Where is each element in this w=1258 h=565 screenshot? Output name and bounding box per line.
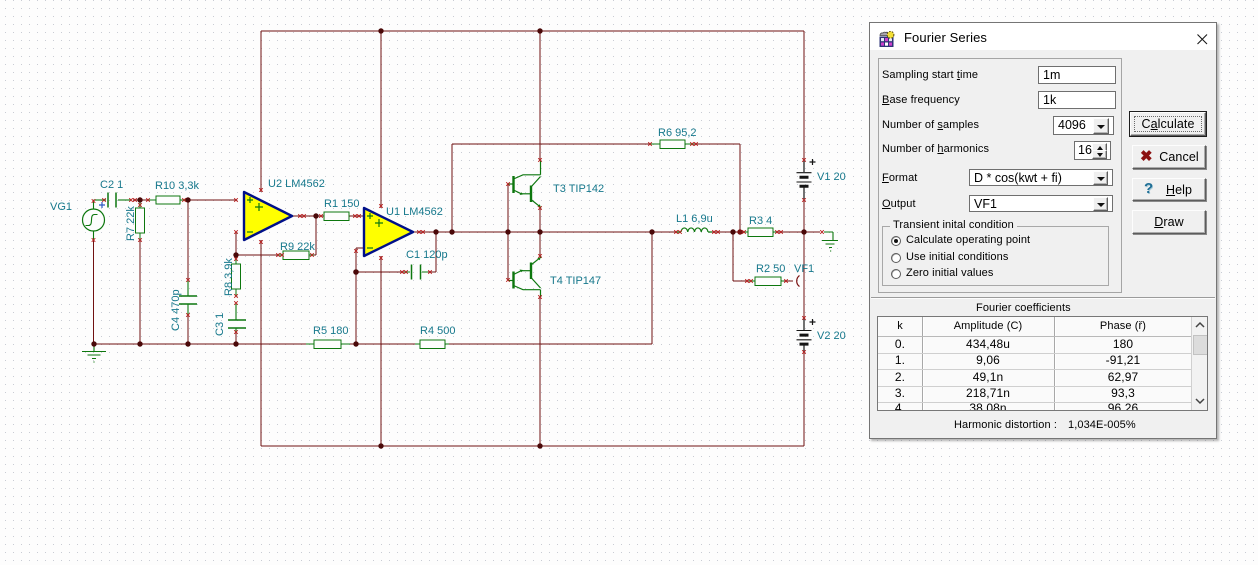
resistor R10 [148, 196, 186, 204]
wire top rail [261, 30, 804, 32]
row 0 [878, 337, 1191, 352]
title text [904, 30, 987, 45]
svg-text:L1 6,9u: L1 6,9u [676, 213, 713, 225]
row 3 [878, 386, 1191, 401]
svg-text:V2 20: V2 20 [817, 330, 846, 342]
wire C2 to R7 node [133, 199, 148, 201]
wire R6 branch riser [452, 144, 651, 232]
svg-text:R10 3,3k: R10 3,3k [155, 180, 200, 192]
transistor T3 [508, 161, 541, 208]
wire C4 bottom [187, 315, 189, 344]
node R6 drop [737, 229, 742, 234]
wire R1 to U1 input [348, 215, 364, 217]
svg-text:T4 TIP147: T4 TIP147 [550, 275, 601, 287]
wire U1 V+ feed [380, 31, 382, 208]
node top rail T3 [537, 28, 542, 33]
svg-text:R6 95,2: R6 95,2 [658, 127, 697, 139]
capacitor C4 [179, 281, 197, 315]
label Base frequency [882, 94, 960, 106]
label Format [882, 172, 917, 184]
edit base frequency [1038, 91, 1116, 109]
wire R2 to VF1 [784, 280, 793, 282]
wire V1 top [803, 31, 805, 161]
node top rail U1 [378, 28, 383, 33]
radio Calculate operating point [891, 236, 901, 246]
node gnd/VG1 [91, 341, 96, 346]
row 2 [878, 370, 1191, 385]
battery V2 [797, 318, 816, 352]
wire T3 collector feed [539, 31, 541, 161]
edit sampling start time [1038, 66, 1116, 84]
label Output [882, 198, 916, 210]
VG1 plus polarity mark [99, 202, 105, 208]
svg-text:U1 LM4562: U1 LM4562 [386, 206, 443, 218]
button Draw [1132, 210, 1206, 234]
wire U2 inverting input drop [235, 232, 237, 264]
wire ground line mid [350, 343, 415, 345]
svg-text:R8 3,9k: R8 3,9k [223, 258, 235, 296]
wire U1 inv to ground line [355, 272, 357, 344]
wire V2 top [803, 232, 805, 318]
title icon [879, 31, 895, 47]
node U2-/R9/R8 [233, 252, 238, 257]
row 4 [878, 401, 1191, 416]
group box Transient inital condition [882, 226, 1109, 286]
button Calculate [1130, 112, 1206, 136]
resistor R5 [306, 340, 350, 349]
wire R10 to U2 input [184, 199, 237, 201]
op-amp U1 [364, 208, 413, 256]
Fourier Series dialog window [869, 22, 1217, 439]
wire L1 to R3 [712, 231, 744, 233]
node R5/U1- [353, 341, 358, 346]
wire C1 left [356, 271, 404, 273]
ground left [82, 344, 106, 362]
wire R3 right [776, 231, 820, 233]
battery V1 [797, 159, 816, 199]
wire R9 left [236, 254, 278, 256]
node V1/V2/gnd [801, 229, 806, 234]
node R6 branch [449, 229, 454, 234]
voltage probe VF1 [797, 276, 800, 287]
wire C4 top [187, 200, 189, 280]
node emitters [537, 229, 542, 234]
svg-text:VF1: VF1 [794, 263, 814, 275]
wire U1 inverting lead [356, 248, 364, 272]
wire ground line right [449, 343, 652, 345]
row separators [878, 336, 1191, 337]
resistor R6 [651, 140, 694, 149]
wire L1 return riser [651, 232, 653, 344]
wire C1 right riser [428, 232, 436, 272]
column line amplitude/phase [1054, 317, 1056, 410]
wire R9 right riser [312, 216, 316, 255]
label Fourier coefficients [976, 302, 1071, 314]
wire C3 bottom [235, 331, 237, 344]
header row [878, 320, 922, 332]
wire ground line left [94, 343, 306, 345]
ground right [822, 232, 838, 251]
svg-text:R2 50: R2 50 [756, 263, 785, 275]
node U2 out/R1/R9 [313, 213, 318, 218]
wire U1 output line [413, 231, 677, 233]
node R7/gnd line [137, 341, 142, 346]
node C1/out [433, 229, 438, 234]
separator [871, 297, 1215, 299]
svg-text:T3 TIP142: T3 TIP142 [553, 183, 604, 195]
svg-text:R5 180: R5 180 [313, 325, 348, 337]
wire R7 bottom [139, 240, 141, 344]
title bar [870, 23, 1216, 50]
wire T3 emitter [539, 208, 541, 232]
wire R6 right drop [694, 144, 740, 232]
resistor R4 [415, 340, 449, 349]
combo format [969, 169, 1113, 186]
wire T4 collector to bottom rail [539, 297, 541, 446]
scrollbar [1191, 317, 1208, 410]
resistor R2 [749, 277, 784, 286]
node bottom rail U1 [378, 443, 383, 448]
wire U2 V+ feed [260, 31, 262, 192]
svg-text:R3 4: R3 4 [749, 215, 772, 227]
capacitor C3 [228, 304, 246, 332]
wire U2 output to R1 [293, 215, 325, 217]
node C2/R7/R10 [137, 197, 142, 202]
resistor R1 [324, 212, 349, 221]
wire T4 emitter [539, 232, 541, 256]
wire VG1 bottom [93, 240, 95, 344]
inductor L1 [677, 228, 712, 232]
combo output [969, 195, 1113, 212]
svg-text:R4 500: R4 500 [420, 325, 455, 337]
label Sampling start time [882, 69, 978, 81]
close button [1197, 34, 1208, 45]
capacitor C2 [94, 193, 132, 208]
svg-text:C4 470p: C4 470p [170, 289, 182, 331]
node bases [505, 229, 510, 234]
label Number of samples [882, 119, 979, 131]
node U1-/C1 [353, 269, 359, 275]
row 1 [878, 353, 1191, 368]
node C3/gnd line [233, 341, 238, 346]
harmonic distortion line [954, 419, 1057, 431]
button Cancel [1132, 145, 1206, 169]
svg-text:C3 1: C3 1 [214, 313, 226, 336]
wire bottom rail [261, 445, 804, 447]
button Help [1132, 178, 1206, 201]
resistor R8 [232, 258, 241, 296]
op-amp U2 [244, 192, 292, 240]
svg-text:VG1: VG1 [50, 201, 72, 213]
svg-text:R7 22k: R7 22k [125, 206, 137, 241]
wire V1 bottom [803, 200, 805, 232]
resistor R9 [278, 251, 314, 260]
svg-text:R1 150: R1 150 [324, 198, 359, 210]
label Number of harmonics [882, 143, 989, 155]
generator VG1 [83, 200, 105, 240]
combo number of samples [1053, 116, 1114, 135]
wire R2 branch [733, 232, 749, 281]
node R2 branch [730, 229, 735, 234]
capacitor C1 [404, 265, 428, 280]
wire transistor bases column [507, 184, 509, 280]
wire V2 bottom [803, 352, 805, 446]
node C4/gnd line [185, 341, 190, 346]
resistor R7 [136, 200, 145, 240]
coefficients table [877, 316, 1208, 411]
column line k/amplitude [922, 317, 924, 410]
node R10/C4/U2+ [185, 197, 190, 202]
resistor R3 [744, 228, 776, 237]
transistor T4 [508, 256, 541, 297]
svg-text:U2 LM4562: U2 LM4562 [268, 178, 325, 190]
wire U1 V- feed [380, 256, 382, 446]
wire U2 V- feed [260, 240, 262, 446]
node L1/return [649, 229, 654, 234]
node bottom rail T4 [537, 443, 542, 448]
svg-text:C2 1: C2 1 [100, 179, 123, 191]
spin number of harmonics [1074, 141, 1111, 160]
svg-text:R9 22k: R9 22k [280, 241, 315, 253]
radio Use initial conditions [891, 253, 901, 263]
fields panel [878, 58, 1122, 293]
svg-text:C1 120p: C1 120p [406, 249, 448, 261]
svg-text:V1 20: V1 20 [817, 171, 846, 183]
radio Zero initial values [891, 269, 901, 279]
pin marks [92, 142, 824, 354]
